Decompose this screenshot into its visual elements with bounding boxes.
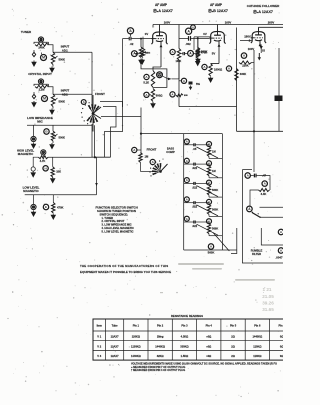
test point rumble in [245, 173, 250, 178]
svg-text:160V: 160V [225, 20, 232, 24]
svg-text:2.2M: 2.2M [39, 88, 45, 92]
resistor 560K grid V2B [196, 37, 207, 57]
svg-text:.002: .002 [185, 42, 191, 46]
test point ladder R4 [207, 199, 212, 204]
wire plate V3A [259, 27, 284, 30]
wire to 470K [193, 53, 197, 55]
svg-text:1.5KΩ: 1.5KΩ [181, 354, 189, 358]
wire x141 vertical [140, 108, 142, 155]
svg-text:10K: 10K [56, 169, 61, 173]
svg-text:4.3KΩ: 4.3KΩ [181, 335, 189, 339]
test point H hlm [43, 166, 48, 171]
test point grid V2A [127, 28, 133, 34]
wire ladder row 5 [199, 222, 223, 236]
svg-text:1M: 1M [212, 169, 216, 173]
diagonal link row 1 [197, 147, 219, 158]
svg-text:39.26: 39.26 [262, 301, 274, 306]
svg-text:1440KΩ: 1440KΩ [155, 344, 165, 348]
wire ladder row 1 [199, 145, 223, 159]
svg-text:.02: .02 [130, 42, 134, 46]
wire ladder top join [183, 134, 185, 136]
cathode arrow V3A [260, 46, 263, 50]
test point selector [81, 100, 86, 105]
test point ladder L1 [184, 139, 189, 144]
resistor 600 ohm [151, 89, 163, 102]
test point ladder L4 [184, 197, 189, 202]
wire crystal pot to selector [53, 93, 92, 95]
svg-text:120KΩ: 120KΩ [132, 335, 140, 339]
label HIGH LEVEL MAGNETIC [17, 149, 35, 157]
test point cathode V2B [202, 64, 207, 69]
wire rumble inner box [261, 228, 283, 245]
resistor 10K hlm shunt [51, 167, 61, 177]
label .002 [185, 42, 191, 46]
wire bass tp [137, 149, 141, 151]
svg-text:12AX7: 12AX7 [111, 344, 119, 348]
wire selector to volume line [101, 116, 141, 118]
wire hlm to selector [48, 157, 92, 167]
wire tuner jack box [34, 37, 49, 56]
wire ladder bottom [184, 249, 237, 251]
diagonal link row 4 [197, 205, 219, 216]
svg-text:5V: 5V [212, 52, 216, 56]
svg-text:RUMBLE: RUMBLE [251, 248, 263, 252]
svg-text:21.05: 21.05 [262, 294, 274, 299]
test point E llm [43, 204, 48, 209]
resistor 100K plate load V2A [176, 49, 182, 64]
svg-text:MIC: MIC [37, 120, 43, 124]
svg-text:330KΩ: 330KΩ [180, 344, 188, 348]
resistor 1800 ohm cathode V2B [209, 64, 223, 77]
svg-text:SWITCH SEQUENCE:: SWITCH SEQUENCE: [100, 212, 129, 216]
svg-text:A: A [187, 29, 190, 33]
svg-text:FRONT: FRONT [95, 92, 105, 96]
svg-text:0V: 0V [203, 32, 207, 36]
label stage V2A heading [153, 3, 173, 13]
wire crystal jack box [34, 79, 49, 98]
capacitor electrolytic blob [275, 96, 283, 102]
resistor 3.3K rumble [259, 189, 270, 197]
wire tp M stub [41, 53, 43, 55]
wire rumble res left [250, 190, 259, 206]
ground llm jack [31, 211, 37, 218]
svg-text:560K: 560K [212, 227, 218, 231]
svg-text:0Ω: 0Ω [280, 354, 283, 358]
wire V3 res join [252, 62, 255, 64]
svg-text:330K: 330K [240, 72, 246, 76]
svg-text:0Ω: 0Ω [280, 344, 283, 348]
test point M tuner [41, 55, 47, 61]
svg-text:.0047: .0047 [276, 256, 283, 260]
svg-text:A: A [186, 178, 188, 182]
label 560K ladder bottom [208, 250, 215, 254]
test point M crystal [42, 96, 48, 102]
resistor 4.7K hlm series [39, 156, 49, 163]
test point B mic [44, 129, 49, 134]
label 260V plate V3A [268, 20, 275, 24]
svg-text:5. LOW LEVEL MAGNETIC: 5. LOW LEVEL MAGNETIC [102, 229, 134, 233]
resistor 1M ladder row 1 [207, 147, 215, 157]
wire selector loop lower [92, 125, 111, 158]
rotary switch S1 function selector [81, 95, 101, 132]
svg-text:560K: 560K [208, 250, 215, 254]
label 180V [244, 34, 251, 38]
svg-text:470K: 470K [57, 206, 63, 210]
svg-text:12AX7: 12AX7 [111, 354, 119, 358]
label 5 percent [196, 82, 200, 86]
output arrow V3A [258, 53, 261, 61]
capacitor .022 ladder row 4 [184, 201, 199, 209]
label CRYSTAL INPUT [28, 72, 52, 76]
svg-text:A: A [83, 100, 85, 104]
svg-text:1. TUNER: 1. TUNER [102, 216, 114, 220]
svg-text:.05: .05 [193, 147, 197, 151]
svg-text:CATHODE FOLLOWER: CATHODE FOLLOWER [247, 4, 280, 8]
label BASS COMP [166, 147, 175, 154]
test point after cap [188, 51, 194, 57]
ground llm shunt [51, 214, 57, 221]
test point fb2 [144, 92, 149, 97]
resistor 560K ladder row 5 [207, 224, 218, 234]
resistor 1MEG bass [139, 153, 149, 163]
label 160V plate V2B [225, 20, 232, 24]
wire selector loop outer [100, 102, 123, 158]
svg-text:Item: Item [97, 324, 103, 328]
svg-text:M: M [43, 97, 46, 101]
jack J3 low imp mic [31, 136, 36, 141]
svg-text:V 1: V 1 [97, 335, 101, 339]
label 160V cathode [248, 47, 255, 51]
ground 1800 ohm [208, 77, 214, 84]
test point V3 grid [241, 53, 246, 58]
svg-text:MAGNETIC: MAGNETIC [23, 189, 39, 193]
triode V2B [209, 28, 225, 46]
wire tuner pot to selector [53, 51, 92, 53]
svg-text:560K: 560K [212, 207, 218, 211]
svg-text:AF AMP: AF AMP [155, 3, 168, 7]
wire hlm left shield [33, 157, 38, 167]
wire V2A plate node [178, 25, 180, 49]
label 5.1K [143, 81, 149, 85]
note cooperation [80, 264, 171, 274]
test point plate V2A [170, 49, 175, 54]
svg-text:A: A [186, 197, 188, 201]
svg-text:Pin 7: Pin 7 [279, 324, 283, 328]
svg-text:Pin 4: Pin 4 [206, 324, 213, 328]
test point on B+ rail [191, 25, 196, 30]
capacitor D cluster [189, 82, 193, 85]
svg-text:Ⓥ₃A 12AX7: Ⓥ₃A 12AX7 [253, 9, 273, 14]
table resistance readings [93, 319, 318, 360]
svg-text:A: A [186, 159, 188, 163]
label INPUT ADJ 1 [61, 45, 70, 53]
capacitor .02 coupling V2A [129, 37, 134, 46]
wire x254 drop [253, 131, 255, 172]
potentiometer 500K input adj 1 [51, 52, 65, 66]
svg-text:MAGNETIC: MAGNETIC [18, 152, 34, 156]
label LOW LEVEL MAGNETIC [23, 186, 40, 194]
wire ladder row 2 [199, 164, 223, 178]
resistor 470K llm shunt [52, 203, 64, 214]
smudge marks [160, 263, 275, 312]
svg-text:500K: 500K [59, 58, 65, 62]
svg-text:Pin 5: Pin 5 [230, 324, 237, 328]
wire bus y131 right [237, 130, 284, 132]
svg-text:Ⓥ₂B 12AX7: Ⓥ₂B 12AX7 [208, 8, 228, 13]
label 160V plate V2A [164, 20, 171, 24]
svg-text:≈0Ω: ≈0Ω [206, 344, 211, 348]
potentiometer 500K input adj 2 [51, 94, 65, 108]
test point ladder L3 [184, 178, 189, 183]
test point edge 1 [278, 229, 283, 234]
svg-text:0V: 0V [145, 32, 149, 36]
capacitor .022 ladder row 5 [184, 221, 199, 229]
label LOW IMPEDANCE MIC [27, 116, 53, 124]
wire ladder right rail [221, 134, 223, 250]
wire cathode V2B [218, 45, 220, 64]
svg-text:110KΩ: 110KΩ [253, 354, 261, 358]
wire cathode V2A to fb [153, 67, 161, 69]
svg-text:EQUIPMENT MAKES IT POSSIBLE TO: EQUIPMENT MAKES IT POSSIBLE TO BRING YOU… [80, 270, 171, 274]
test point ladder R2 [207, 161, 212, 166]
resistor 330K vertical [235, 69, 246, 81]
svg-text:31.65: 31.65 [262, 307, 274, 312]
diagonal link row 3 [197, 186, 219, 197]
wire bus x236 [236, 28, 238, 132]
test point ladder R3 [207, 180, 212, 185]
ground hlm shunt [50, 177, 56, 184]
svg-text:2Ω: 2Ω [231, 344, 235, 348]
svg-text:A: A [192, 25, 194, 29]
svg-text:V 3: V 3 [97, 354, 101, 358]
shield circle hlm [31, 167, 35, 171]
wire D stub [179, 80, 181, 82]
capacitor NFB chain [182, 52, 188, 55]
test point edge 2 [278, 248, 283, 253]
ground tuner shield [31, 61, 37, 68]
wire grid V2B [194, 37, 210, 50]
ground D cluster [189, 86, 193, 91]
resistor 220K V3 grid [239, 61, 252, 68]
test point ladder R1 [207, 142, 212, 147]
wire right edge vertical [278, 48, 280, 131]
ground crystal shield [31, 101, 37, 108]
wire selector loop inner [103, 107, 116, 158]
svg-text:1440KΩ: 1440KΩ [131, 354, 141, 358]
svg-text:1440KΩ: 1440KΩ [252, 335, 262, 339]
test point G eq [157, 72, 163, 78]
ground 600 ohm [150, 102, 156, 109]
label RUMBLE FILTER [251, 248, 263, 256]
wire rumble cap right [259, 176, 270, 191]
svg-text:560K: 560K [212, 188, 218, 192]
svg-text:3. LOW IMPEDANCE MIC: 3. LOW IMPEDANCE MIC [102, 223, 132, 227]
svg-text:Tube: Tube [112, 324, 119, 328]
wire plate node down [178, 60, 180, 79]
wire rumble out2 [260, 216, 283, 218]
label RESISTANCE READINGS [171, 314, 203, 318]
svg-text:1Meg: 1Meg [157, 335, 164, 339]
resistor 560K ladder row 3 [207, 185, 218, 195]
svg-text:500K: 500K [59, 136, 65, 140]
capacitor .002 interstage [188, 36, 190, 41]
svg-text:110KΩ: 110KΩ [253, 344, 261, 348]
svg-text:Pin 3: Pin 3 [181, 324, 188, 328]
svg-text:2Ω: 2Ω [231, 354, 235, 358]
test point fb1 [144, 74, 149, 79]
ground grid return V2A [139, 59, 145, 66]
label FRONT selector [95, 92, 105, 96]
wire ladder left rail [183, 136, 185, 250]
capacitor .47 rumble [250, 174, 266, 178]
wire rumble out1 [260, 206, 284, 208]
svg-text:1800Ω: 1800Ω [214, 67, 223, 71]
svg-text:A: A [129, 29, 132, 33]
svg-text:MEG: MEG [145, 53, 150, 55]
test point V2B out [226, 66, 231, 71]
svg-text:220K: 220K [242, 64, 248, 68]
test point above cap [186, 28, 192, 34]
wire cathode V2A down [160, 46, 162, 67]
pin 2 label [249, 38, 251, 42]
svg-text:260V: 260V [268, 20, 275, 24]
wire feedback box [141, 65, 167, 88]
test point volume [132, 51, 138, 57]
resistor 1MEG grid return V2A [141, 37, 147, 58]
test point ladder L2 [184, 158, 189, 163]
label FRONT bass [147, 148, 157, 152]
resistor 5.1K feedback [151, 69, 154, 88]
ground hlm shield [30, 171, 36, 178]
feedback arrow [168, 78, 179, 81]
resistor 2.2M crystal load [35, 85, 49, 91]
capacitor .022 ladder row 2 [184, 163, 199, 171]
svg-text:560K: 560K [201, 49, 207, 53]
test point D [181, 78, 186, 83]
capacitor .05 ladder row 1 [184, 143, 199, 151]
svg-text:5.1K: 5.1K [143, 81, 149, 85]
potentiometer 500K mic [51, 131, 65, 143]
svg-text:2. CRYSTAL INPUT: 2. CRYSTAL INPUT [102, 219, 125, 223]
resistor 240K tuner load [35, 43, 49, 49]
label .0047 [276, 256, 283, 260]
jack J5 low level mag [31, 204, 36, 209]
svg-text:M: M [42, 56, 45, 60]
capacitor .022 ladder row 3 [184, 182, 199, 190]
wire hlm jack down [42, 155, 44, 157]
triode V2A [151, 29, 167, 47]
capacitor cathode V3A [263, 49, 264, 51]
svg-text:V 2: V 2 [97, 344, 101, 348]
svg-text:FILTER: FILTER [252, 252, 261, 256]
svg-text:THE COOPERATION OF THE MANUFAC: THE COOPERATION OF THE MANUFACTURERS OF … [80, 264, 168, 268]
wire llm bus [25, 157, 98, 204]
svg-text:160V: 160V [164, 20, 171, 24]
svg-text:240K: 240K [38, 46, 44, 50]
wire rumble box left [242, 170, 283, 263]
jack J2 crystal input [38, 79, 43, 84]
test point fb3 [170, 92, 175, 97]
wire G to right [162, 76, 168, 79]
svg-text:RESISTANCE READINGS: RESISTANCE READINGS [171, 314, 203, 318]
wire rumble left ext [231, 228, 237, 254]
svg-text:FRONT: FRONT [147, 148, 157, 152]
wire plate V2B to rail [217, 25, 219, 29]
diagonal link row 2 [197, 166, 219, 177]
wire grid line V2A [123, 38, 152, 40]
wire interstage V2A-V2B [179, 37, 209, 39]
ground crystal pot return [49, 109, 55, 116]
resistor 470K [196, 38, 207, 60]
svg-text:Pin 2: Pin 2 [157, 324, 164, 328]
resistor 600 fb [176, 94, 188, 97]
wire feedback vertical [179, 61, 237, 107]
wire crystal to pot [48, 87, 54, 94]
ground 470K [195, 60, 201, 67]
ground 560K [195, 58, 201, 65]
switch rumble filter [252, 212, 261, 218]
svg-text:COMP: COMP [166, 150, 175, 154]
label stage V2B heading [208, 3, 228, 13]
svg-text:A: A [186, 140, 188, 144]
wire selector to grid line [122, 39, 124, 107]
resistor 1M ladder row 2 [207, 166, 215, 176]
ground volume [138, 59, 144, 66]
svg-text:Pin 6: Pin 6 [254, 324, 261, 328]
svg-text:160V: 160V [248, 47, 255, 51]
svg-text:12AX7: 12AX7 [111, 335, 119, 339]
svg-text:600Ω: 600Ω [156, 94, 163, 98]
svg-text:† MEASURED FROM PIN 4 OF OUTPU: † MEASURED FROM PIN 4 OF OUTPUT PLUG [131, 369, 185, 372]
wire bus y133 mid [141, 133, 222, 135]
label 5V [212, 52, 216, 56]
test point bass in [132, 147, 137, 152]
resistor 560K ladder row 4 [207, 204, 218, 214]
svg-text:A: A [186, 217, 188, 221]
ground tuner pot return [49, 67, 55, 74]
label TUNER [21, 30, 32, 34]
wire tuner to pot [48, 45, 54, 52]
test point ladder bottom [208, 244, 213, 249]
wire selector vertical feed [91, 52, 93, 157]
svg-text:E: E [45, 205, 47, 209]
wire low imp mic bus [27, 125, 92, 136]
diagonal to rumble [213, 233, 229, 252]
volume control 500K [134, 39, 143, 58]
wire x254 vertical [253, 50, 255, 131]
wire fb2 [149, 94, 151, 96]
shield ground M2 [32, 94, 37, 100]
test point ladder R5 [207, 219, 212, 224]
test point ladder L5 [184, 216, 189, 221]
svg-text:TUNER: TUNER [21, 30, 32, 34]
label 0V grid V2A [145, 32, 149, 36]
jack J1 tuner input [38, 37, 43, 42]
wire B+ top rail [153, 25, 283, 28]
svg-text:1M: 1M [212, 150, 216, 154]
triode V3A [251, 29, 266, 47]
wire rumble top [242, 170, 253, 173]
svg-text:3.3K: 3.3K [261, 192, 267, 196]
svg-text:AF AMP: AF AMP [210, 3, 223, 7]
svg-text:4. HIGH LEVEL MAGNETIC: 4. HIGH LEVEL MAGNETIC [102, 226, 135, 230]
note function selector switch [96, 206, 138, 234]
svg-text:0Ω: 0Ω [280, 335, 283, 339]
diagonal link row 5 [197, 224, 219, 235]
wire plate V2A to rail [159, 25, 161, 30]
svg-text:CRYSTAL INPUT: CRYSTAL INPUT [28, 72, 52, 76]
jack J4 high level mag [41, 150, 46, 155]
